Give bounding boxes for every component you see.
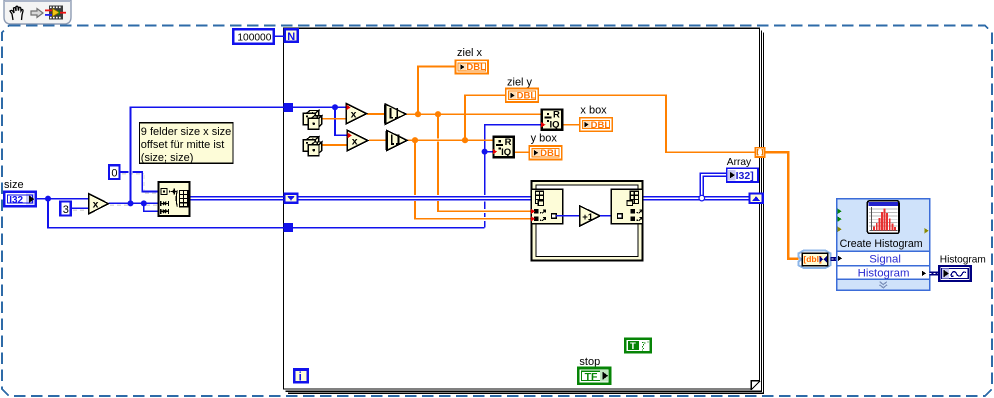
svg-text:DBL: DBL xyxy=(466,62,486,73)
wire: constant 0 to init array (gap at x=130.5) xyxy=(121,172,159,192)
dynamic wire express VI to Histogram indicator xyxy=(930,271,940,275)
indicator y box DBL xyxy=(529,146,561,159)
random number dice 2 xyxy=(303,137,322,156)
svg-text:i: i xyxy=(299,372,302,384)
tunnel top-left (i rail) xyxy=(284,103,293,112)
svg-text:Histogram: Histogram xyxy=(858,268,910,280)
svg-text:y box: y box xyxy=(531,133,558,145)
svg-text:x: x xyxy=(93,199,99,211)
wire shadows xyxy=(73,174,158,210)
svg-text:T: T xyxy=(630,341,636,352)
control size I32 xyxy=(4,192,36,207)
dynamic wire converter to express VI xyxy=(831,257,837,261)
svg-text:Signal: Signal xyxy=(869,253,901,265)
svg-text:I32]: I32] xyxy=(736,170,754,182)
coercion dot QR1 xyxy=(541,122,545,128)
wire: multiply2 out to floor2 xyxy=(369,139,386,141)
tunnel bottom-left (size rail) xyxy=(284,223,293,232)
wire: size branch down to loop tunnel rail xyxy=(48,199,284,228)
svg-text:x: x xyxy=(351,108,357,120)
in-place element structure frame xyxy=(531,181,642,260)
svg-text:0: 0 xyxy=(111,167,117,179)
convert to dynamic data node xyxy=(798,250,830,268)
increment +1 node xyxy=(580,206,600,226)
wire: dice2 out xyxy=(322,144,348,146)
array wire: branch up to Array indicator xyxy=(700,173,726,198)
wire: size rail inside loop to QR divisor (gaps at crossings) xyxy=(292,227,485,229)
indicator x box DBL xyxy=(580,118,612,131)
svg-text:DBL: DBL xyxy=(517,91,537,102)
N count terminal xyxy=(285,29,298,43)
svg-text:100000: 100000 xyxy=(237,32,271,43)
multiply node 1 xyxy=(346,104,366,124)
constant 3 xyxy=(60,202,71,216)
svg-text:TF: TF xyxy=(585,371,598,383)
i iteration terminal xyxy=(294,370,307,384)
svg-text:ziel x: ziel x xyxy=(457,47,483,59)
svg-text:x box: x box xyxy=(580,105,607,117)
wire: branch up to ziel x xyxy=(418,67,456,115)
coercion dot QR2 xyxy=(493,149,497,155)
wire: branch down to struct x index (gaps at crossings) xyxy=(438,114,531,211)
wire: rail branch down to multiply 2 xyxy=(335,107,347,135)
express VI Create Histogram xyxy=(837,199,930,291)
indicator Histogram dynamic xyxy=(939,266,971,281)
for loop resize corner fold xyxy=(751,380,761,390)
wire: multiply branch down to init array dim2 xyxy=(144,203,159,211)
svg-text:DBL: DBL xyxy=(540,148,560,159)
array wire: left SR into in-place structure xyxy=(298,197,531,200)
constant 0 xyxy=(109,165,120,179)
array wire: init array to left shift register xyxy=(189,197,284,200)
toolbar hand tool icon xyxy=(10,6,23,20)
coercion dot struct y index xyxy=(531,216,535,222)
wire 100000 to N xyxy=(275,35,285,37)
quotient remainder node 2 xyxy=(493,137,513,158)
svg-text:Create Histogram: Create Histogram xyxy=(840,238,923,250)
comment box: 9 felder xyxy=(140,123,233,164)
coercion dot multiply2 xyxy=(348,133,352,139)
wire: dice1 out xyxy=(322,118,347,120)
svg-text:N: N xyxy=(287,31,295,43)
svg-text:(size; size): (size; size) xyxy=(141,152,194,164)
array wire: structure out to right shift register xyxy=(643,197,749,200)
random number dice 1 xyxy=(303,110,322,129)
wire: QR divisor branch to QR2 xyxy=(485,151,493,153)
wire: i*3 rail inside loop to multipliers xyxy=(292,106,346,108)
wire: multiply1 out to floor1 xyxy=(367,113,385,115)
wire junction circle on array wire xyxy=(699,195,705,201)
coercion dot struct x index xyxy=(531,209,535,215)
svg-text:IQ: IQ xyxy=(501,147,511,158)
junction dot rail xyxy=(332,104,338,110)
wire +1 to replace element xyxy=(600,215,615,217)
quotient remainder node 1 xyxy=(542,109,562,130)
wire: floor2 out to QR2 xyxy=(407,139,493,141)
tunnel orange right border xyxy=(755,148,764,157)
multiply node 2 xyxy=(347,130,367,150)
wire: branch down to struct y index (gaps at crossings) xyxy=(415,140,531,219)
express VI histogram icon xyxy=(867,201,899,234)
wire: multiply out to init array xyxy=(108,202,158,204)
index array border node xyxy=(531,189,562,224)
multiply node (size x 3) xyxy=(89,194,109,214)
left shift register xyxy=(284,194,297,203)
junction dots floor2 line xyxy=(412,137,418,143)
initialize array node xyxy=(158,182,189,216)
wire: QR1 out to x box xyxy=(562,124,579,126)
svg-text:x: x xyxy=(352,135,358,147)
svg-text:[dbl]: [dbl] xyxy=(803,254,822,264)
junction dot size xyxy=(45,196,51,202)
svg-text:+1: +1 xyxy=(582,212,594,223)
svg-text:stop: stop xyxy=(579,356,600,368)
toolbar palette xyxy=(4,0,71,24)
indicator ziel x DBL xyxy=(456,60,488,73)
junction dots multiply out xyxy=(128,200,134,206)
svg-text:Histogram: Histogram xyxy=(940,255,986,266)
floor node 2 (round toward -inf) xyxy=(387,130,407,150)
toolbar subVI icon xyxy=(45,6,66,20)
constant True T xyxy=(625,339,650,353)
svg-text:Array: Array xyxy=(727,157,752,168)
junction dot divisor xyxy=(482,149,488,155)
wire: floor1 out to QR1 xyxy=(406,113,542,115)
wire: constant 3 to multiply xyxy=(72,207,89,209)
indicator Array I32 xyxy=(727,168,758,182)
wire: orange tunnel out to converter xyxy=(764,152,798,258)
svg-text:size: size xyxy=(4,179,24,191)
svg-text:DBL: DBL xyxy=(591,120,611,131)
svg-text:I32: I32 xyxy=(9,195,23,206)
indicator ziel y DBL xyxy=(506,89,538,102)
wire: size out to multiply xyxy=(36,198,88,200)
svg-text:offset für mitte ist: offset für mitte ist xyxy=(141,139,225,151)
control stop TF xyxy=(578,368,610,384)
svg-text:IQ: IQ xyxy=(550,119,560,130)
for loop border xyxy=(284,28,764,393)
replace array element border node xyxy=(611,189,642,224)
svg-text:ziel y: ziel y xyxy=(507,77,533,89)
toolbar arrow cursor icon xyxy=(31,9,43,18)
floor node 1 (round toward -inf) xyxy=(385,104,405,124)
wire index array to +1 xyxy=(556,215,579,217)
coercion dot multiply1 xyxy=(346,105,350,111)
wire: branch up to ziel y and over to loop tunnel xyxy=(465,95,755,152)
constant 100000 xyxy=(233,29,274,44)
right shift register xyxy=(750,193,763,203)
junction dots floor1 line xyxy=(415,111,421,117)
svg-text:9 felder size x size: 9 felder size x size xyxy=(141,126,231,138)
svg-text:3: 3 xyxy=(63,204,69,216)
wire: QR2 out to y box xyxy=(515,151,529,153)
wire: multiply branch up rail to loop xyxy=(131,107,285,203)
